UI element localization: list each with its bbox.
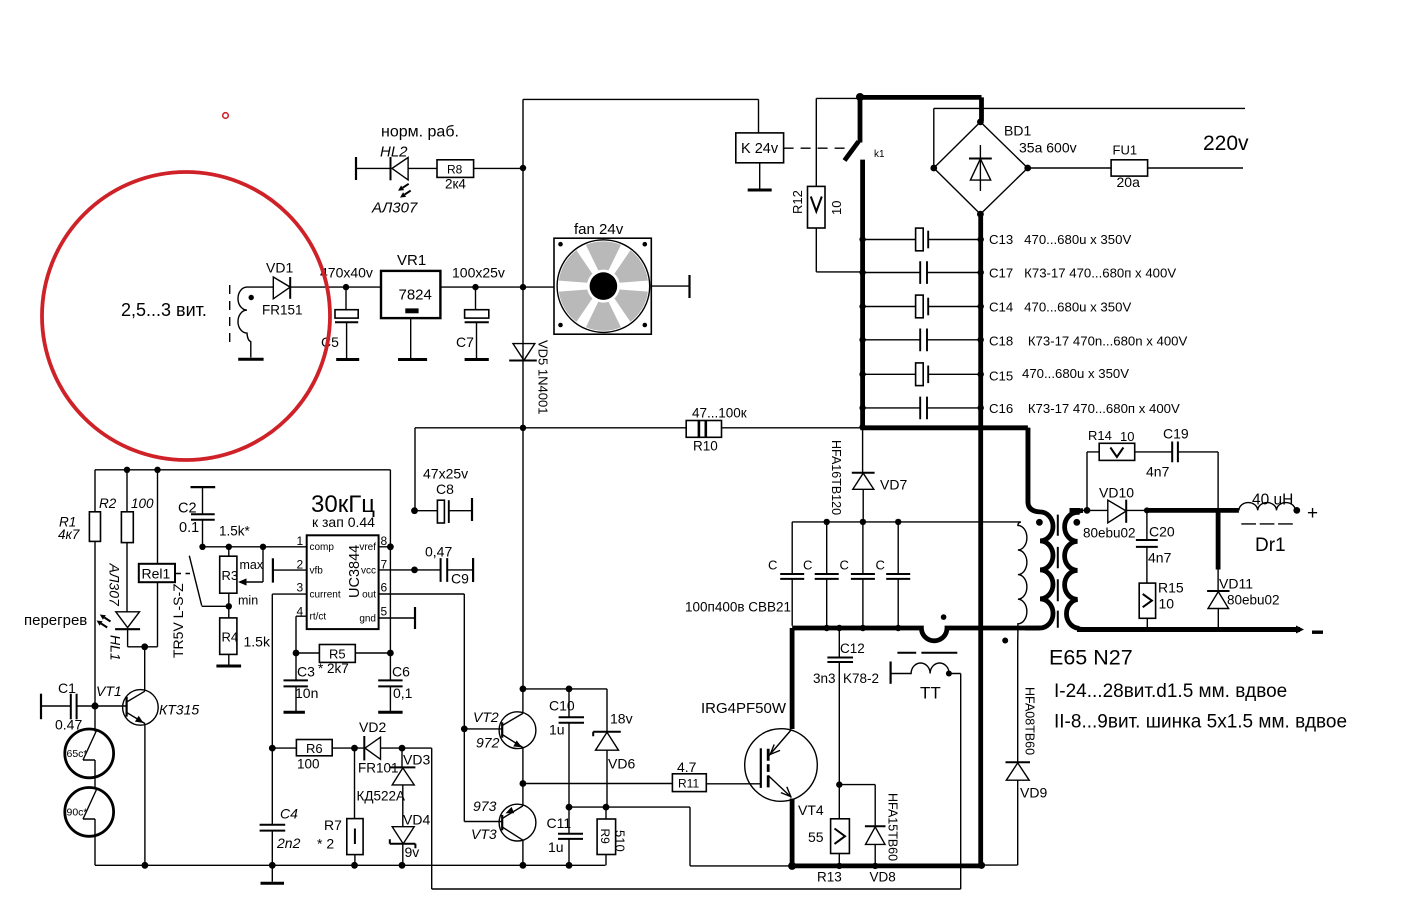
svg-text:8: 8	[381, 534, 388, 548]
pin2 vfb stub	[273, 558, 307, 582]
svg-text:1: 1	[297, 534, 304, 548]
capacitor C16	[859, 397, 1180, 420]
svg-text:АЛ307: АЛ307	[371, 200, 418, 217]
resistor R3 trimmer	[220, 547, 264, 608]
wire plus rail thick	[1144, 507, 1239, 513]
capacitor C9	[425, 544, 473, 587]
text minus	[1312, 631, 1323, 634]
svg-text:1.5k: 1.5k	[244, 634, 271, 650]
svg-text:4n7: 4n7	[1146, 464, 1170, 480]
svg-text:VD8: VD8	[870, 870, 896, 885]
wire coil to VD1	[247, 286, 273, 288]
diode VD7	[829, 428, 907, 522]
bridge BD1	[930, 119, 1076, 218]
capacitor C11	[547, 807, 584, 865]
capacitor C10	[549, 689, 584, 807]
thermostat 90c	[65, 778, 114, 866]
capacitor C14	[859, 295, 1131, 318]
svg-text:55: 55	[808, 829, 824, 845]
capacitor C2	[178, 487, 215, 547]
svg-text:FR151: FR151	[262, 303, 303, 318]
wire minus rail thick	[1077, 626, 1304, 634]
capacitor C5	[321, 287, 358, 358]
current transformer TT	[891, 653, 961, 889]
ground coil	[238, 358, 263, 361]
capacitor C17	[859, 261, 1176, 284]
transistor VT2 972	[473, 709, 536, 751]
svg-text:R13: R13	[817, 870, 842, 885]
svg-text:R8: R8	[447, 163, 463, 177]
svg-text:перегрев: перегрев	[24, 612, 87, 629]
diode VD9	[982, 687, 1048, 865]
svg-text:4.7: 4.7	[677, 759, 697, 775]
dashed link Rel1 to switch	[175, 573, 190, 575]
svg-text:E65 N27: E65 N27	[1049, 646, 1133, 670]
terminal bar HL2	[355, 157, 357, 180]
text 2,5...3 вит.	[121, 300, 207, 320]
svg-text:100x25v: 100x25v	[452, 265, 505, 281]
svg-text:I-24...28вит.d1.5 мм. вдвое: I-24...28вит.d1.5 мм. вдвое	[1054, 681, 1287, 702]
svg-text:R7: R7	[324, 817, 342, 833]
svg-text:C: C	[876, 558, 885, 573]
resistor R14	[1087, 428, 1172, 510]
wire fuse to 220v	[1148, 167, 1243, 169]
svg-text:10: 10	[1159, 596, 1175, 612]
svg-text:КТ315: КТ315	[159, 702, 199, 718]
text 100п400в СВВ21	[685, 600, 791, 615]
capacitor C4	[260, 748, 301, 865]
wire HL1 Rel1 junction	[128, 643, 158, 691]
resistor R12	[790, 186, 844, 228]
text winding II	[1054, 712, 1347, 733]
svg-text:4n7: 4n7	[1148, 550, 1172, 566]
svg-text:100: 100	[297, 757, 320, 772]
resistor R15	[1139, 580, 1184, 630]
svg-text:80ebu02: 80ebu02	[1227, 593, 1280, 608]
svg-text:VT4: VT4	[798, 802, 824, 818]
node TT polarity dot	[941, 614, 947, 620]
svg-text:VT1: VT1	[96, 683, 122, 699]
wire top-left vref rail	[95, 467, 390, 473]
wire fan right terminal	[651, 275, 689, 298]
svg-text:R14: R14	[1088, 428, 1112, 443]
svg-text:C3: C3	[297, 664, 315, 680]
capacitor C1	[41, 680, 95, 733]
wiper arrow R3	[238, 547, 263, 586]
pin7 vcc wire	[379, 567, 441, 574]
svg-text:к зап 0.44: к зап 0.44	[312, 514, 375, 530]
wire bridge right to fuse	[1028, 167, 1111, 169]
svg-text:R5: R5	[329, 647, 346, 662]
capacitor C12	[813, 628, 879, 788]
svg-text:C1: C1	[58, 680, 76, 696]
LED HL1	[108, 612, 141, 661]
capacitor C3	[284, 653, 319, 711]
svg-text:0,47: 0,47	[425, 544, 452, 560]
svg-text:C6: C6	[392, 664, 410, 680]
svg-text:R9: R9	[598, 829, 612, 845]
wire bridge left to 220v top	[934, 108, 1245, 168]
svg-text:C9: C9	[451, 571, 469, 587]
switch TR5V contact	[189, 556, 229, 607]
svg-text:VT2: VT2	[473, 709, 499, 725]
svg-text:C: C	[840, 558, 849, 573]
svg-text:UC3844: UC3844	[347, 545, 363, 598]
svg-text:R12: R12	[790, 190, 805, 214]
svg-text:VD6: VD6	[608, 756, 635, 772]
svg-text:1u: 1u	[548, 839, 564, 855]
svg-text:K78-2: K78-2	[843, 671, 879, 686]
capacitor C8	[411, 466, 472, 524]
svg-text:VD4: VD4	[403, 812, 430, 828]
diode VD5	[509, 340, 550, 414]
wire primary bottom bus with TT hump	[792, 625, 1040, 641]
svg-text:норм. раб.: норм. раб.	[381, 124, 459, 141]
resistor R7	[317, 748, 363, 865]
wire comp row	[199, 544, 306, 550]
wire VT2 base	[461, 726, 502, 733]
svg-text:10: 10	[829, 201, 844, 215]
svg-text:VD1: VD1	[266, 260, 293, 276]
transistor VT1 KT315	[95, 683, 199, 865]
svg-text:973: 973	[473, 798, 497, 814]
wire R10 row left	[415, 428, 686, 511]
resistor R9	[597, 807, 627, 865]
svg-text:vfb: vfb	[310, 565, 324, 576]
svg-text:18v: 18v	[610, 711, 633, 727]
svg-text:100п400в СВВ21: 100п400в СВВ21	[685, 600, 791, 615]
text TR5V L-S-Z	[170, 583, 186, 658]
svg-text:C17 К73-17 470...680п x 400V: C17 К73-17 470...680п x 400V	[989, 266, 1176, 281]
pin4 rtct wire	[296, 616, 307, 653]
svg-text:VD2: VD2	[359, 719, 386, 735]
svg-text:HFA15TB60: HFA15TB60	[886, 793, 900, 861]
svg-text:0.1: 0.1	[179, 520, 199, 536]
svg-text:0,1: 0,1	[393, 685, 413, 701]
resistor R1	[58, 470, 101, 706]
relay Rel1	[139, 470, 175, 647]
diode VD10	[1083, 485, 1146, 541]
LED arrows HL1	[97, 615, 111, 628]
LED arrows HL2	[398, 184, 411, 198]
svg-text:HL2: HL2	[380, 144, 408, 161]
wire aux vertical to R12	[816, 98, 858, 186]
svg-text:4к7: 4к7	[58, 527, 80, 542]
text АЛ307 HL1	[107, 563, 123, 608]
wire R12 bottom to bus	[816, 228, 862, 272]
transformer secondary winding	[1065, 511, 1085, 630]
dashed link K24v to k1	[784, 147, 853, 149]
svg-text:510: 510	[613, 830, 628, 852]
wire signal ground rail	[95, 862, 605, 869]
pin8 vref wire	[379, 470, 394, 653]
relay coil K 24v	[736, 133, 784, 163]
svg-text:HFA08TB60: HFA08TB60	[1023, 687, 1037, 755]
svg-text:+: +	[1307, 503, 1318, 524]
svg-text:VD3: VD3	[403, 752, 430, 768]
svg-text:C7: C7	[456, 334, 474, 350]
svg-text:1.5k*: 1.5k*	[219, 524, 251, 539]
svg-text:R11: R11	[678, 777, 699, 791]
wire right bus	[978, 214, 983, 865]
wire switch contact / left bus	[860, 160, 865, 428]
svg-text:1u: 1u	[549, 722, 565, 738]
resistor R8	[437, 160, 523, 192]
svg-text:7824: 7824	[399, 287, 432, 304]
node R8 junction	[520, 165, 526, 171]
resistor R4	[220, 603, 271, 665]
ground K24v	[748, 163, 772, 190]
transformer core	[1057, 515, 1059, 628]
red dot annotation	[223, 113, 229, 119]
svg-text:C: C	[803, 558, 812, 573]
fuse FU1	[1111, 143, 1148, 191]
svg-text:Rel1: Rel1	[142, 566, 171, 582]
diode VD8	[839, 785, 899, 885]
text норм. раб.	[381, 124, 459, 141]
svg-text:65c*: 65c*	[67, 748, 88, 760]
svg-text:Dr1: Dr1	[1255, 535, 1286, 556]
svg-text:min: min	[238, 594, 258, 608]
svg-text:k1: k1	[874, 149, 885, 160]
switch k1	[845, 93, 886, 161]
IC U1 UC3844	[297, 534, 388, 629]
capacitor C7	[456, 287, 489, 358]
transistor VT4 IRG4PF50W	[701, 700, 824, 818]
svg-text:* 2: * 2	[317, 836, 334, 852]
node bus corner VD7	[859, 424, 865, 430]
svg-text:C16 К73-17 470...680п x 400: C16 К73-17 470...680п x 400V	[989, 401, 1180, 416]
svg-text:max: max	[240, 558, 264, 572]
svg-text:2,5...3 вит.: 2,5...3 вит.	[121, 300, 207, 320]
svg-text:2: 2	[297, 557, 304, 571]
text к зап 0.44	[312, 514, 375, 530]
svg-text:47x25v: 47x25v	[423, 466, 468, 482]
wire driver mid row	[566, 804, 790, 866]
snubber capacitor C a	[768, 522, 804, 626]
dashed winding boundary	[229, 285, 231, 349]
svg-text:K 24v: K 24v	[741, 141, 779, 157]
svg-text:R3: R3	[222, 568, 239, 583]
svg-text:VD7: VD7	[880, 477, 907, 493]
svg-text:BD1: BD1	[1004, 123, 1031, 139]
svg-text:C15: C15	[989, 369, 1013, 384]
wire thick bus to transformer top	[860, 428, 1028, 503]
svg-text:C13 470...680u x 350V: C13 470...680u x 350V	[989, 232, 1131, 247]
wire thick emitter rail	[790, 862, 985, 869]
svg-text:C19: C19	[1163, 426, 1189, 442]
svg-text:VD9: VD9	[1020, 785, 1047, 801]
svg-text:40 uH: 40 uH	[1252, 492, 1293, 509]
svg-text:HFA16TB120: HFA16TB120	[829, 440, 843, 515]
svg-text:C8: C8	[436, 481, 454, 497]
svg-text:3n3: 3n3	[813, 671, 836, 686]
text E65 N27	[1049, 646, 1133, 670]
ground VR1	[398, 318, 427, 359]
ground C3	[284, 711, 305, 714]
svg-text:out: out	[362, 589, 376, 600]
svg-text:100: 100	[131, 496, 154, 511]
svg-text:rt/ct: rt/ct	[310, 612, 327, 623]
zener VD4	[390, 812, 431, 866]
svg-text:220v: 220v	[1203, 132, 1249, 155]
wire gate row	[523, 783, 761, 785]
svg-text:2к4: 2к4	[445, 177, 466, 192]
svg-text:R4: R4	[222, 630, 239, 645]
resistor R13	[808, 785, 849, 885]
capacitor C6	[378, 653, 412, 711]
svg-text:10n: 10n	[295, 685, 318, 701]
text winding I	[1054, 681, 1287, 702]
svg-text:2n2: 2n2	[276, 835, 301, 851]
pin3 current wire	[272, 594, 306, 748]
wire VT4 collector thick	[790, 628, 795, 729]
node R14 tap	[1084, 507, 1091, 514]
svg-text:90c*: 90c*	[67, 807, 88, 819]
svg-text:IRG4PF50W: IRG4PF50W	[701, 700, 787, 717]
node 100x25v	[452, 265, 505, 291]
text АЛ307 HL2	[371, 200, 418, 217]
thermostat 65c	[65, 706, 114, 778]
transformer primary winding	[1025, 428, 1053, 628]
LED HL2	[356, 144, 437, 181]
svg-text:TR5V L-S-Z: TR5V L-S-Z	[170, 583, 186, 658]
svg-text:C: C	[768, 558, 777, 573]
wire snubber top rail	[792, 519, 1021, 525]
node R10 row	[520, 425, 526, 431]
wire R10 to bus	[722, 427, 863, 429]
resistor R5	[293, 645, 394, 677]
inductor L1 input coil	[238, 287, 251, 357]
svg-text:II-8...9вит. шинка 5х1.5 мм. в: II-8...9вит. шинка 5х1.5 мм. вдвое	[1054, 712, 1347, 733]
svg-text:C4: C4	[280, 806, 298, 822]
svg-text:35a 600v: 35a 600v	[1019, 140, 1077, 156]
capacitor C19	[1146, 426, 1218, 509]
ground rail symbol	[261, 865, 285, 883]
svg-text:* 2k7: * 2k7	[318, 661, 349, 676]
diode VD2	[355, 719, 406, 776]
resistor R2	[99, 470, 154, 612]
wire thick top bus to bridge	[858, 97, 982, 121]
svg-text:R2: R2	[99, 496, 117, 511]
svg-text:АЛ307: АЛ307	[107, 563, 123, 608]
wire top rail to K24v	[523, 99, 759, 132]
resistor R6	[269, 740, 358, 772]
svg-text:TT: TT	[920, 684, 941, 703]
fan 24v	[554, 221, 651, 334]
text перегрев	[24, 612, 87, 629]
diode VD3	[357, 748, 431, 827]
node 470x40v	[320, 265, 373, 291]
svg-text:10: 10	[1120, 429, 1134, 444]
capacitor C20	[1136, 510, 1175, 583]
wire emitters junction	[520, 748, 527, 806]
svg-text:47...100к: 47...100к	[692, 406, 747, 421]
svg-text:20a: 20a	[1117, 174, 1141, 190]
svg-text:VD5 1N4001: VD5 1N4001	[536, 340, 551, 414]
text 30кГц	[311, 491, 375, 518]
svg-text:VR1: VR1	[397, 252, 426, 269]
svg-text:fan 24v: fan 24v	[574, 221, 624, 238]
wire VT2 collector	[520, 686, 527, 714]
svg-text:C2: C2	[178, 501, 197, 517]
wire secondary top to VD10	[1070, 508, 1108, 513]
capacitor C15	[859, 363, 1129, 386]
wire VT3 base	[464, 821, 502, 823]
wire main vertical x523	[522, 99, 524, 689]
wire driver supply rail	[523, 686, 607, 693]
svg-text:C12: C12	[840, 641, 865, 656]
ground R4	[216, 665, 241, 668]
svg-text:80ebu02: 80ebu02	[1083, 526, 1136, 541]
svg-text:comp: comp	[310, 542, 335, 553]
svg-text:6: 6	[381, 581, 388, 595]
svg-text:5: 5	[381, 605, 388, 619]
snubber capacitor C b	[803, 522, 839, 626]
inductor Dr1	[1239, 492, 1300, 557]
pin5 gnd stub	[379, 607, 415, 629]
wire VD2 node to TT return	[402, 748, 961, 889]
snubber capacitor C d	[876, 522, 911, 626]
svg-text:VT3: VT3	[471, 826, 497, 842]
svg-text:R10: R10	[693, 439, 718, 454]
svg-text:C18 К73-17 470n...680n x 40: C18 К73-17 470n...680n x 400V	[989, 334, 1188, 349]
resistor R11	[672, 759, 706, 792]
text plus	[1307, 503, 1318, 524]
zener VD6	[593, 689, 635, 807]
svg-text:9v: 9v	[405, 844, 420, 860]
svg-text:КД522А: КД522А	[357, 789, 406, 804]
svg-text:470x40v: 470x40v	[320, 265, 373, 281]
svg-text:vcc: vcc	[361, 565, 376, 576]
node VT1 base	[91, 702, 98, 709]
ground C6	[378, 711, 402, 714]
wire VD1 to node	[290, 286, 381, 288]
svg-text:R15: R15	[1158, 580, 1184, 596]
resistor R10	[686, 406, 747, 454]
ground C7	[465, 358, 489, 361]
svg-text:FU1: FU1	[1113, 143, 1138, 158]
svg-text:C10: C10	[549, 698, 575, 714]
diode VD1	[262, 260, 303, 318]
wire VR1 to fan	[440, 286, 554, 288]
svg-text:972: 972	[476, 735, 500, 751]
text 1.5k*	[219, 524, 251, 539]
capacitor C18	[859, 329, 1187, 352]
svg-text:HL1: HL1	[108, 635, 124, 661]
svg-text:VD10: VD10	[1099, 485, 1134, 501]
transistor VT3 973	[471, 798, 536, 865]
node main vertical at fan row	[520, 284, 526, 290]
svg-text:470...680u x 350V: 470...680u x 350V	[1022, 366, 1129, 381]
pin6 out wire	[379, 594, 465, 822]
svg-text:C20: C20	[1149, 524, 1175, 540]
regulator VR1 7824	[381, 252, 440, 318]
svg-text:3: 3	[297, 581, 304, 595]
svg-text:C11: C11	[547, 815, 572, 831]
text 220v	[1203, 132, 1249, 155]
ground C5	[336, 358, 359, 361]
wire VT4 emitter thick	[788, 799, 796, 870]
capacitor C13	[859, 228, 1131, 251]
svg-text:VD11: VD11	[1219, 576, 1253, 592]
diode VD11	[1207, 510, 1279, 629]
svg-text:C14 470...680u x 350V: C14 470...680u x 350V	[989, 300, 1131, 315]
node dot coil polarity	[249, 295, 254, 300]
svg-text:R6: R6	[306, 741, 323, 756]
svg-text:gnd: gnd	[359, 614, 376, 625]
svg-text:current: current	[310, 589, 341, 600]
